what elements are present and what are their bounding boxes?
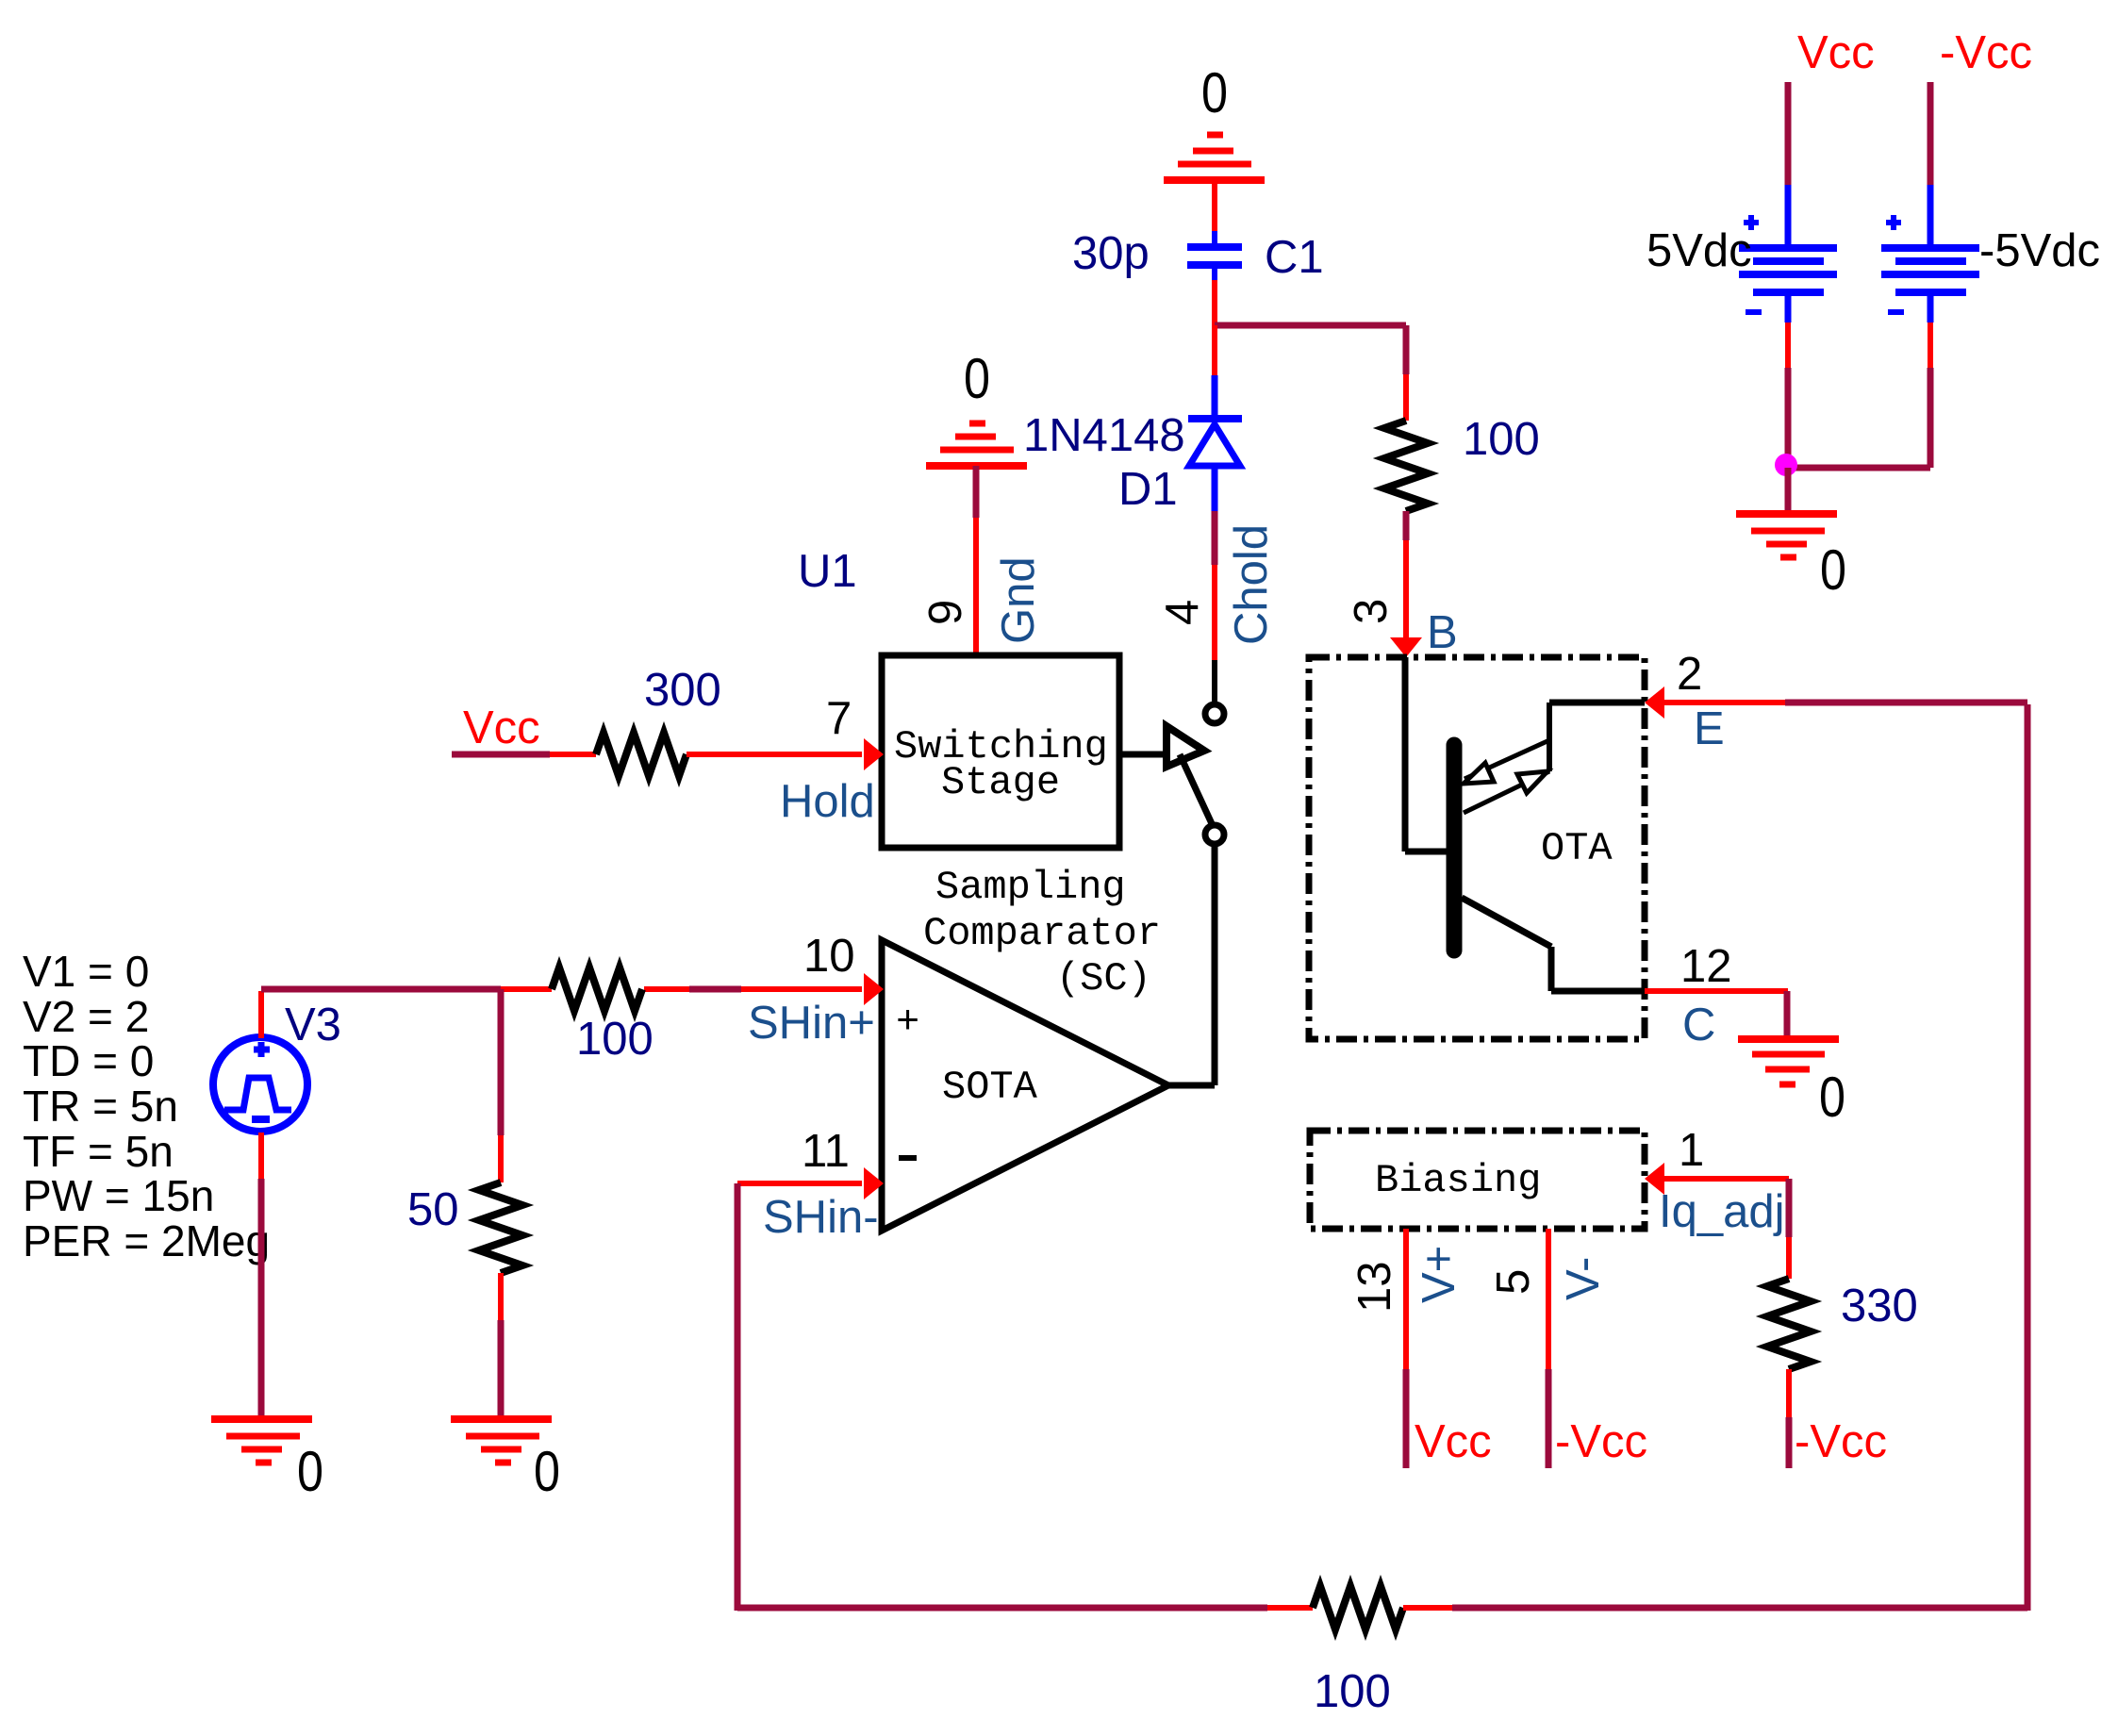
wire junction to ground	[1785, 468, 1792, 514]
capacitor C1	[1187, 231, 1242, 280]
wire into pin 10	[644, 986, 689, 992]
wire pin 13 to Vcc	[1403, 1229, 1409, 1369]
svg-text:C1: C1	[1265, 232, 1324, 283]
svg-text:7: 7	[826, 693, 852, 744]
svg-text:C: C	[1682, 1000, 1715, 1050]
svg-text:V+: V+	[1414, 1246, 1464, 1303]
svg-text:0: 0	[1819, 1066, 1845, 1129]
wire switch to SOTA output	[1212, 847, 1218, 1085]
resistor R 50	[479, 1182, 522, 1273]
svg-text:100: 100	[576, 1014, 654, 1065]
svg-text:5Vdc: 5Vdc	[1646, 225, 1752, 276]
svg-text:100: 100	[1463, 414, 1540, 465]
svg-text:B: B	[1427, 607, 1458, 658]
svg-text:+: +	[896, 1000, 919, 1045]
svg-text:SHin-: SHin-	[763, 1192, 879, 1243]
svg-text:Stage: Stage	[941, 760, 1060, 805]
wire into pin 11	[737, 1181, 862, 1186]
svg-text:0: 0	[534, 1440, 560, 1503]
svg-text:SOTA: SOTA	[942, 1065, 1038, 1110]
svg-text:5: 5	[1488, 1269, 1539, 1295]
svg-text:V3: V3	[285, 1000, 341, 1050]
svg-text:10: 10	[803, 931, 855, 982]
transistor Q (OTA core)	[1405, 657, 1645, 991]
svg-text:Sampling: Sampling	[935, 865, 1126, 910]
svg-text:D1: D1	[1118, 464, 1178, 515]
svg-text:PW = 15n: PW = 15n	[23, 1171, 214, 1220]
wire SHin- down to bottom	[735, 1183, 741, 1611]
svg-text:Comparator: Comparator	[923, 911, 1161, 956]
svg-text:-Vcc: -Vcc	[1795, 1416, 1887, 1467]
svg-text:300: 300	[644, 665, 721, 716]
svg-text:Chold: Chold	[1226, 524, 1277, 645]
switch contact bottom	[1205, 825, 1224, 844]
svg-text:13: 13	[1349, 1261, 1400, 1313]
pin arrow 10	[864, 973, 884, 1005]
svg-text:0: 0	[1820, 538, 1846, 602]
svg-text:4: 4	[1157, 600, 1208, 625]
switch contact top	[1205, 704, 1224, 723]
svg-text:PER = 2Meg: PER = 2Meg	[23, 1216, 270, 1265]
wire V1 minus to junction	[1785, 322, 1791, 368]
svg-text:30p: 30p	[1072, 228, 1150, 279]
svg-text:1: 1	[1679, 1125, 1704, 1176]
wire E net right edge down	[2025, 704, 2031, 1611]
op-amp SOTA sampling comparator	[882, 940, 1168, 1231]
wire R330 to -Vcc	[1786, 1369, 1792, 1417]
wire junction down to D1	[1212, 325, 1217, 375]
svg-text:Vcc: Vcc	[463, 703, 540, 753]
svg-text:12: 12	[1680, 941, 1732, 992]
ground 0 (power supplies)	[1736, 514, 1837, 557]
wire pin 12 to ground	[1645, 988, 1788, 994]
resistor 100 (top)	[1384, 421, 1428, 511]
resistor R 100 (bottom)	[1313, 1586, 1403, 1629]
wire bottom left segment	[737, 1605, 1267, 1612]
svg-text:9: 9	[920, 600, 971, 625]
svg-text:0: 0	[964, 347, 990, 410]
svg-text:Biasing: Biasing	[1375, 1158, 1541, 1203]
svg-text:-Vcc: -Vcc	[1555, 1416, 1647, 1467]
wire Vcc to R300	[452, 752, 550, 758]
wire ground to U1 pin 9	[973, 466, 980, 518]
switch arrow	[1167, 726, 1204, 767]
pin arrow 7 (Hold)	[864, 738, 884, 770]
resistor R 330	[1767, 1279, 1811, 1369]
diode D1 1N4148	[1188, 375, 1242, 511]
svg-text:Hold: Hold	[780, 776, 875, 827]
svg-text:-Vcc: -Vcc	[1940, 27, 2032, 78]
pin arrow 11	[864, 1167, 884, 1199]
wire E to right edge	[1663, 700, 1785, 705]
svg-text:50: 50	[407, 1184, 459, 1235]
svg-text:0: 0	[1201, 61, 1228, 124]
svg-text:2: 2	[1677, 649, 1702, 700]
svg-text:Iq_adj: Iq_adj	[1659, 1186, 1785, 1237]
wire pin 5 to -Vcc	[1546, 1229, 1551, 1369]
wire V3 plus up and across	[258, 991, 264, 1038]
wire V3 minus to ground	[258, 1133, 264, 1179]
wire ground to C1	[1212, 180, 1217, 231]
svg-text:V2 = 2: V2 = 2	[23, 992, 149, 1041]
wire C1 to junction	[1212, 280, 1217, 325]
svg-text:U1: U1	[798, 546, 857, 597]
svg-text:(SC): (SC)	[1056, 956, 1151, 1001]
svg-text:V-: V-	[1558, 1257, 1609, 1300]
svg-text:1N4148: 1N4148	[1023, 410, 1185, 461]
op-amp Biasing dashed box	[1310, 1131, 1645, 1229]
svg-text:Vcc: Vcc	[1415, 1416, 1492, 1467]
op-amp U1 Switching Stage box	[882, 655, 1119, 848]
resistor R 300	[596, 733, 687, 776]
svg-text:TD = 0: TD = 0	[23, 1036, 154, 1085]
svg-text:Gnd: Gnd	[993, 556, 1044, 644]
wire bottom right segment	[1403, 1605, 1452, 1611]
wire R300 to pin 7	[687, 752, 862, 757]
battery V1 5Vdc	[1739, 185, 1837, 322]
wire junction down to R50	[498, 989, 505, 1135]
ground 0 (above C1, flipped)	[1164, 135, 1265, 180]
wire junction across	[1788, 465, 1930, 471]
pin arrow 3 (B)	[1390, 637, 1422, 657]
wire junction to R100 (top)	[1403, 325, 1410, 374]
pin arrow 1 (Iq_adj)	[1645, 1163, 1664, 1195]
resistor R 100 (mid)	[552, 967, 642, 1011]
svg-text:Vcc: Vcc	[1797, 27, 1875, 78]
svg-text:V1 = 0: V1 = 0	[23, 947, 149, 996]
svg-text:SHin+: SHin+	[748, 998, 875, 1049]
voltage source V3 (pulse)	[213, 1037, 307, 1132]
svg-text:E: E	[1694, 703, 1725, 754]
wire U1 output to switch	[1119, 752, 1169, 758]
wire V2 minus down	[1928, 322, 1933, 368]
battery V2 -5Vdc	[1881, 82, 1979, 322]
ground 0 (above U1 pin 9, flipped)	[926, 423, 1027, 466]
wire R100 to OTA pin 3	[1403, 511, 1410, 540]
svg-text:11: 11	[802, 1126, 850, 1177]
wire pin 1 to R330	[1663, 1176, 1789, 1182]
node junction dot	[1775, 454, 1797, 476]
svg-text:0: 0	[297, 1440, 323, 1503]
pin arrow 2 (E)	[1645, 686, 1664, 719]
wire Vcc to V1	[1785, 82, 1792, 185]
node junction C1/D1/R	[1215, 322, 1406, 329]
svg-text:3: 3	[1346, 599, 1397, 624]
svg-text:TF = 5n: TF = 5n	[23, 1127, 174, 1176]
ground 0 (R50)	[451, 1419, 552, 1463]
ground 0 (V3)	[211, 1419, 312, 1463]
svg-text:330: 330	[1841, 1281, 1918, 1331]
svg-text:TR = 5n: TR = 5n	[23, 1082, 178, 1131]
wire junction to R100 (mid)	[501, 986, 552, 992]
switch blade	[1180, 754, 1215, 830]
wire D1 to switch (Chold net)	[1212, 511, 1218, 565]
svg-text:-5Vdc: -5Vdc	[1979, 225, 2100, 276]
svg-text:OTA: OTA	[1541, 826, 1613, 871]
wire R50 to ground	[498, 1273, 504, 1320]
op-amp OTA dashed box	[1309, 657, 1645, 1039]
ground 0 (OTA pin 12)	[1738, 1039, 1839, 1084]
svg-text:100: 100	[1314, 1666, 1391, 1717]
